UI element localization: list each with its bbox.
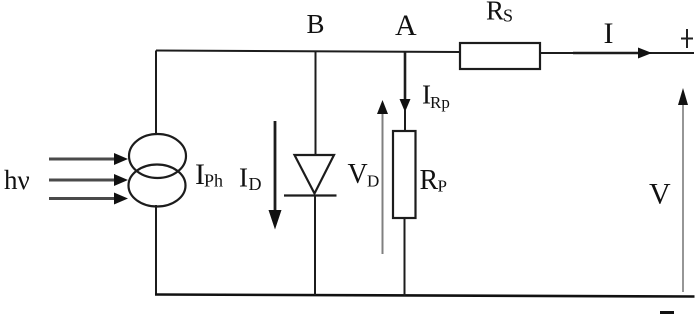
svg-text:V: V bbox=[649, 178, 671, 211]
svg-text:D: D bbox=[249, 174, 262, 194]
svg-text:S: S bbox=[503, 6, 513, 26]
svg-text:Ph: Ph bbox=[204, 171, 223, 191]
svg-text:I: I bbox=[604, 17, 614, 50]
svg-text:D: D bbox=[367, 172, 379, 191]
svg-text:I: I bbox=[239, 163, 248, 193]
svg-text:A: A bbox=[395, 9, 417, 42]
svg-text:V: V bbox=[348, 159, 368, 190]
svg-text:P: P bbox=[438, 177, 447, 196]
svg-text:B: B bbox=[307, 9, 325, 39]
svg-text:R: R bbox=[420, 165, 439, 196]
svg-text:R: R bbox=[486, 0, 504, 26]
svg-text:Rp: Rp bbox=[430, 93, 450, 112]
svg-text:hν: hν bbox=[4, 165, 30, 195]
